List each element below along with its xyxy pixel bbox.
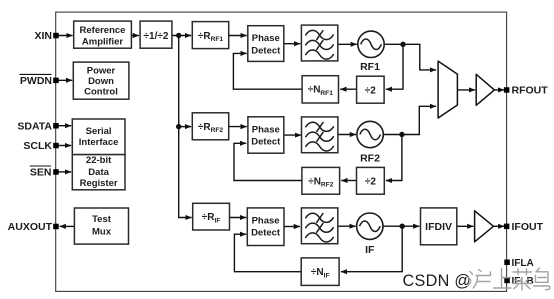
svg-text:Phase: Phase	[252, 33, 280, 44]
svg-text:Detect: Detect	[251, 228, 281, 239]
svg-text:IFLA: IFLA	[512, 258, 534, 269]
svg-text:Mux: Mux	[92, 226, 112, 237]
svg-text:Data: Data	[88, 167, 109, 178]
svg-text:IFOUT: IFOUT	[512, 221, 544, 233]
svg-text:÷1/÷2: ÷1/÷2	[144, 31, 169, 42]
svg-text:Test: Test	[92, 214, 112, 225]
svg-text:Control: Control	[84, 87, 118, 98]
svg-text:÷2: ÷2	[365, 85, 376, 96]
svg-text:SDATA: SDATA	[17, 120, 52, 132]
svg-text:Detect: Detect	[251, 137, 281, 148]
svg-text:IFDIV: IFDIV	[425, 221, 452, 233]
svg-text:AUXOUT: AUXOUT	[8, 221, 53, 233]
svg-text:IF: IF	[365, 244, 375, 256]
svg-text:SCLK: SCLK	[23, 140, 52, 152]
svg-text:22-bit: 22-bit	[86, 155, 112, 166]
svg-text:÷2: ÷2	[365, 176, 376, 187]
svg-text:Register: Register	[80, 178, 118, 189]
svg-text:Phase: Phase	[252, 215, 280, 226]
svg-text:RF1: RF1	[360, 61, 380, 73]
svg-text:Reference: Reference	[80, 25, 126, 36]
svg-text:PWDN: PWDN	[20, 75, 52, 87]
svg-text:SEN: SEN	[30, 166, 52, 178]
svg-text:CSDN @: CSDN @	[403, 272, 472, 290]
svg-text:RFOUT: RFOUT	[512, 85, 549, 97]
svg-text:Amplifier: Amplifier	[82, 36, 123, 47]
svg-text:Interface: Interface	[79, 137, 119, 148]
svg-text:Phase: Phase	[252, 124, 280, 135]
svg-text:RF2: RF2	[360, 153, 380, 165]
svg-text:Power: Power	[87, 66, 116, 77]
svg-text:Serial: Serial	[86, 126, 112, 137]
svg-text:Down: Down	[88, 76, 114, 87]
svg-text:Detect: Detect	[251, 46, 281, 57]
svg-text:XIN: XIN	[34, 30, 52, 42]
